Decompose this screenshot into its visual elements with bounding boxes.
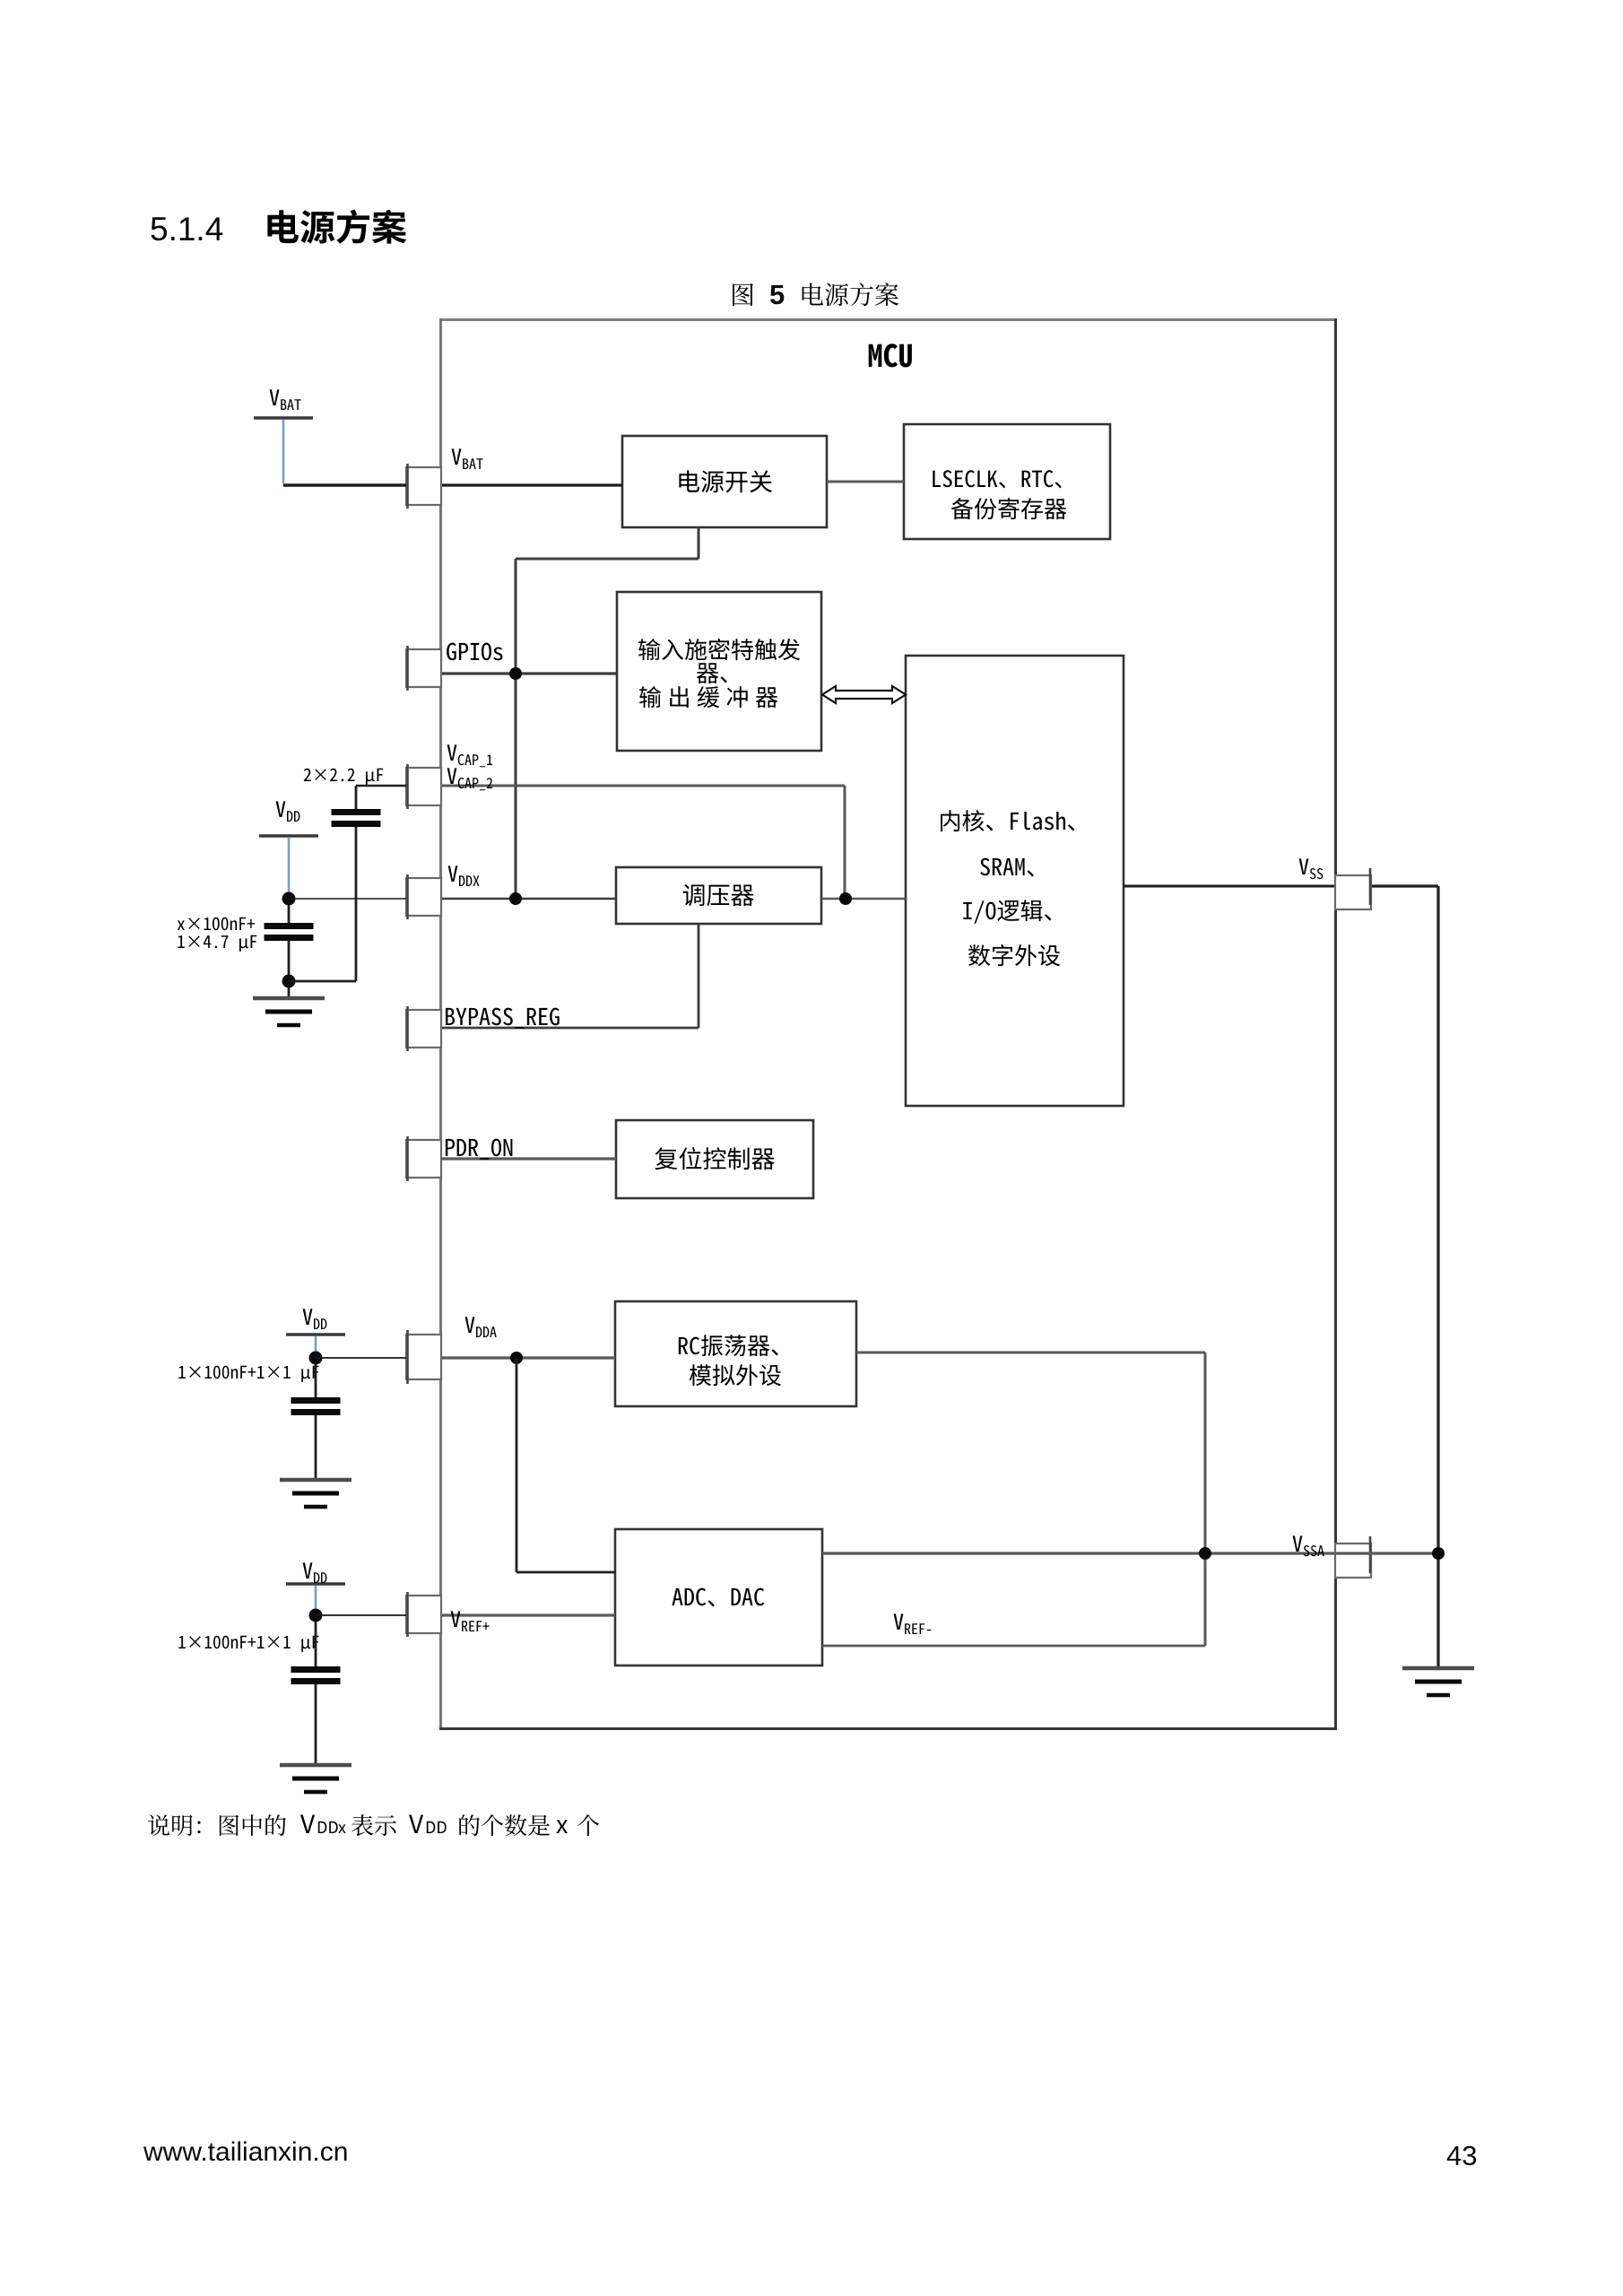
block ADC DAC (615, 1529, 822, 1665)
wire VDD blue drop 3 (315, 1586, 317, 1611)
wire 2.2uF cap bottom down (355, 827, 358, 981)
node VDD supply rail 1 (259, 834, 318, 838)
svg-text:5: 5 (769, 279, 785, 310)
wire VREF- from ADC (822, 1645, 1205, 1648)
wire VDDA pin to RC block (406, 1356, 615, 1359)
block input schmitt trigger / output buffer (617, 592, 821, 751)
label VSS (1299, 858, 1324, 879)
node VDD supply rail 3 (286, 1582, 345, 1586)
wire ADC to VSSA pin (822, 1552, 1438, 1554)
wire VDDA net vertical to ADC (516, 1358, 518, 1572)
junction VDD node 1 (282, 892, 296, 906)
node VBAT supply rail (254, 416, 313, 420)
junction VSSA right rail (1432, 1547, 1445, 1560)
pin PDR_ON (406, 1136, 441, 1181)
pin VSSA (1335, 1536, 1371, 1578)
pin GPIOs (406, 646, 441, 691)
junction regulator output (839, 892, 852, 905)
capacitor C 2x2.2uF (355, 786, 358, 809)
wire right rail vertical VSS to ground (1436, 886, 1439, 1666)
wire power switch bottom drop (698, 527, 700, 559)
junction VDD cap bottom (282, 975, 296, 988)
wire VDD blue drop 1 (288, 838, 291, 894)
svg-text:www.tailianxin.cn: www.tailianxin.cn (143, 2137, 348, 2167)
label BYPASS_REG (446, 1008, 560, 1029)
label 1×100nF+1×1µF (VREF) (178, 1636, 318, 1652)
block core/flash/sram/io-logic/digital peripherals (906, 656, 1124, 1106)
wire GPIOs pin to schmitt block (441, 672, 617, 674)
ground VDDA branch (280, 1480, 352, 1507)
bidirectional arrow schmitt <-> core (822, 686, 906, 703)
wire VBAT to pin (283, 483, 406, 486)
figure caption 图 5 电源方案 (733, 283, 753, 306)
pin VREF+ (406, 1592, 441, 1637)
label MCU (869, 344, 912, 367)
wire VCAP_2 to regulator output (441, 785, 845, 787)
wire GPIO net vertical (515, 559, 517, 899)
wire power switch to LSECLK block (827, 481, 904, 483)
wire VDD node to VDDX pin (289, 898, 406, 900)
junction GPIO net (509, 667, 522, 680)
wire VCAP_2 vertical drop (844, 786, 846, 899)
label PDR_ON (446, 1139, 513, 1160)
ground right rail (1402, 1668, 1474, 1695)
wire PDR_ON pin to reset controller (441, 1157, 616, 1160)
wire regulator bottom to BYPASS_REG (698, 924, 700, 1028)
junction VSSA loop (1199, 1547, 1211, 1560)
wire VCAP to cap branch (356, 785, 406, 787)
label VBAT supply (270, 389, 301, 410)
label VBAT pin (452, 448, 483, 469)
wire VREF+ node to pin (316, 1614, 406, 1616)
wire VBAT pin to power switch (441, 483, 622, 486)
wire regulator to core block (821, 898, 906, 900)
label VREF+ (451, 1611, 490, 1631)
svg-text:5.1.4: 5.1.4 (150, 211, 223, 248)
label VDD supply 2 (303, 1309, 327, 1329)
label GPIOs (447, 643, 502, 661)
label VDDX (448, 865, 480, 886)
wire core block to VSS pin (1124, 885, 1335, 888)
capacitor C VREF (315, 1622, 317, 1666)
block 调压器 (voltage regulator) (616, 867, 821, 924)
label VDDA (465, 1317, 497, 1337)
ground VDD branch (288, 987, 291, 997)
pin BYPASS_REG (406, 1006, 441, 1051)
pin VCAP (406, 764, 441, 809)
capacitor C VDDA (315, 1364, 317, 1397)
label x×100nF+1×4.7µF (178, 918, 255, 930)
wire VDDA cap to ground (315, 1415, 317, 1480)
label VDD supply 3 (303, 1562, 327, 1583)
label VREF- (894, 1613, 932, 1634)
wire BYPASS_REG pin (441, 1027, 699, 1030)
wire VDDX pin to regulator (406, 898, 616, 900)
junction VDDA node (309, 1352, 323, 1365)
wire VBAT blue drop (282, 420, 285, 483)
label 2×2.2 µF (304, 769, 383, 785)
wire RC block to right loop (856, 1352, 1205, 1354)
block LSECLK RTC backup registers (904, 424, 1110, 539)
label VDD supply 1 (276, 801, 300, 822)
label VCAP_1 (447, 744, 493, 767)
label VSSA (1293, 1535, 1324, 1556)
wire VREF cap to ground (315, 1684, 317, 1765)
label 1×100nF+1×1µF (VDDA) (178, 1366, 318, 1382)
pin VSS (1335, 868, 1371, 909)
wire VSS pin to right rail (1371, 884, 1438, 887)
wire VREF+ pin to ADC (406, 1613, 615, 1616)
pin VDDX (406, 874, 441, 919)
block 电源开关 (power switch) U-powerswitch (622, 436, 827, 527)
node VDD supply rail 2 (286, 1333, 345, 1336)
wire right loop vertical (1204, 1352, 1207, 1646)
block 复位控制器 (reset controller) (616, 1120, 813, 1198)
wire VDDA net into ADC block (516, 1571, 615, 1574)
junction VDDA net (510, 1352, 523, 1364)
MCU block outline (439, 318, 1337, 1730)
wire cap bottom to 2.2uF branch (289, 980, 356, 983)
svg-text:43: 43 (1446, 2140, 1477, 2171)
note 说明 (148, 1814, 286, 1836)
junction VDDX net (509, 892, 522, 905)
wire VDD blue drop 2 (315, 1336, 317, 1353)
capacitor Cx 100nF+4.7uF (288, 905, 291, 923)
block RC oscillator / analog peripherals (615, 1301, 856, 1406)
pin VBAT (406, 464, 441, 509)
ground VREF branch (280, 1765, 352, 1792)
label VCAP_2 (447, 768, 493, 790)
wire horizontal to GPIO net (516, 558, 699, 561)
junction VREF+ node (309, 1609, 323, 1622)
pin VDDA (406, 1330, 441, 1384)
wire VDDA node to pin (316, 1357, 406, 1359)
